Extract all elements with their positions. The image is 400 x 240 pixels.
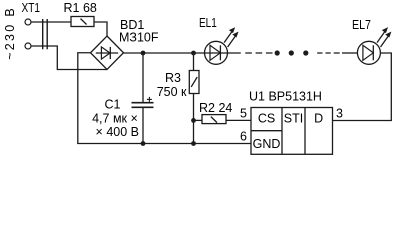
svg-text:× 400 В: × 400 В	[96, 125, 139, 139]
svg-text:XT1: XT1	[22, 1, 41, 15]
svg-text:C1: C1	[105, 98, 121, 112]
svg-text:R2 24: R2 24	[199, 101, 232, 115]
svg-text:CS: CS	[258, 112, 275, 126]
svg-text:4,7 мк ×: 4,7 мк ×	[92, 111, 138, 125]
svg-text:D: D	[314, 112, 323, 126]
svg-text:~230 В: ~230 В	[3, 8, 17, 60]
svg-text:750 к: 750 к	[157, 85, 187, 99]
svg-text:МЗ10F: МЗ10F	[119, 30, 159, 44]
svg-text:6: 6	[240, 130, 247, 144]
svg-text:R3: R3	[165, 71, 181, 85]
svg-text:EL1: EL1	[199, 16, 217, 30]
svg-text:GND: GND	[253, 137, 281, 151]
svg-text:U1 BP5131H: U1 BP5131H	[249, 90, 322, 104]
svg-text:3: 3	[336, 107, 343, 121]
svg-text:R1 68: R1 68	[64, 1, 97, 15]
svg-text:EL7: EL7	[352, 18, 371, 32]
svg-text:STI: STI	[284, 112, 303, 126]
svg-text:5: 5	[240, 107, 247, 121]
